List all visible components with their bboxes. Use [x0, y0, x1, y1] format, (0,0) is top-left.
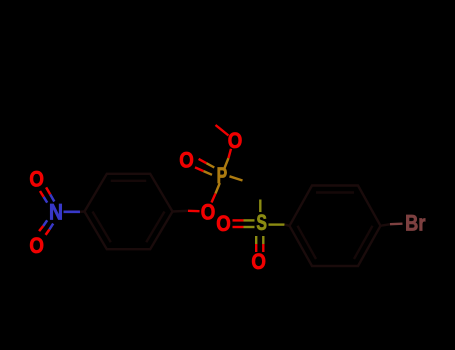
right benzene ring (4-bromophenyl)	[290, 186, 381, 267]
svg-text:O: O	[228, 130, 243, 154]
svg-text:O: O	[29, 235, 44, 259]
O(ethyl) - CH2 half bond	[216, 125, 229, 136]
CH2 - S half bond	[259, 200, 261, 213]
svg-text:O: O	[201, 201, 216, 225]
svg-text:O: O	[251, 250, 266, 274]
S = O left double bond	[233, 220, 255, 227]
svg-text:O: O	[29, 168, 44, 192]
svg-text:P: P	[217, 165, 228, 189]
svg-text:N: N	[49, 200, 63, 224]
O(aryl) - P bond	[212, 183, 220, 203]
nitro N=O top double bond	[40, 187, 54, 202]
svg-text:O: O	[216, 213, 231, 237]
P - O(ethyl) bond	[224, 149, 231, 169]
nitro N=O bottom double bond	[39, 220, 53, 235]
svg-text:S: S	[256, 212, 267, 236]
P = O double bond	[195, 159, 214, 175]
N - ring bond	[64, 211, 81, 214]
S = O bottom double bond	[256, 236, 263, 252]
S - ring bond	[269, 223, 285, 225]
svg-text:Br: Br	[405, 212, 425, 236]
svg-text:O: O	[179, 149, 194, 173]
ring - O(aryl) bond	[173, 210, 189, 213]
left benzene ring (4-nitrophenyl)	[85, 174, 173, 249]
P - CH2 half bond	[230, 176, 243, 180]
ring - Br bond	[381, 224, 391, 226]
